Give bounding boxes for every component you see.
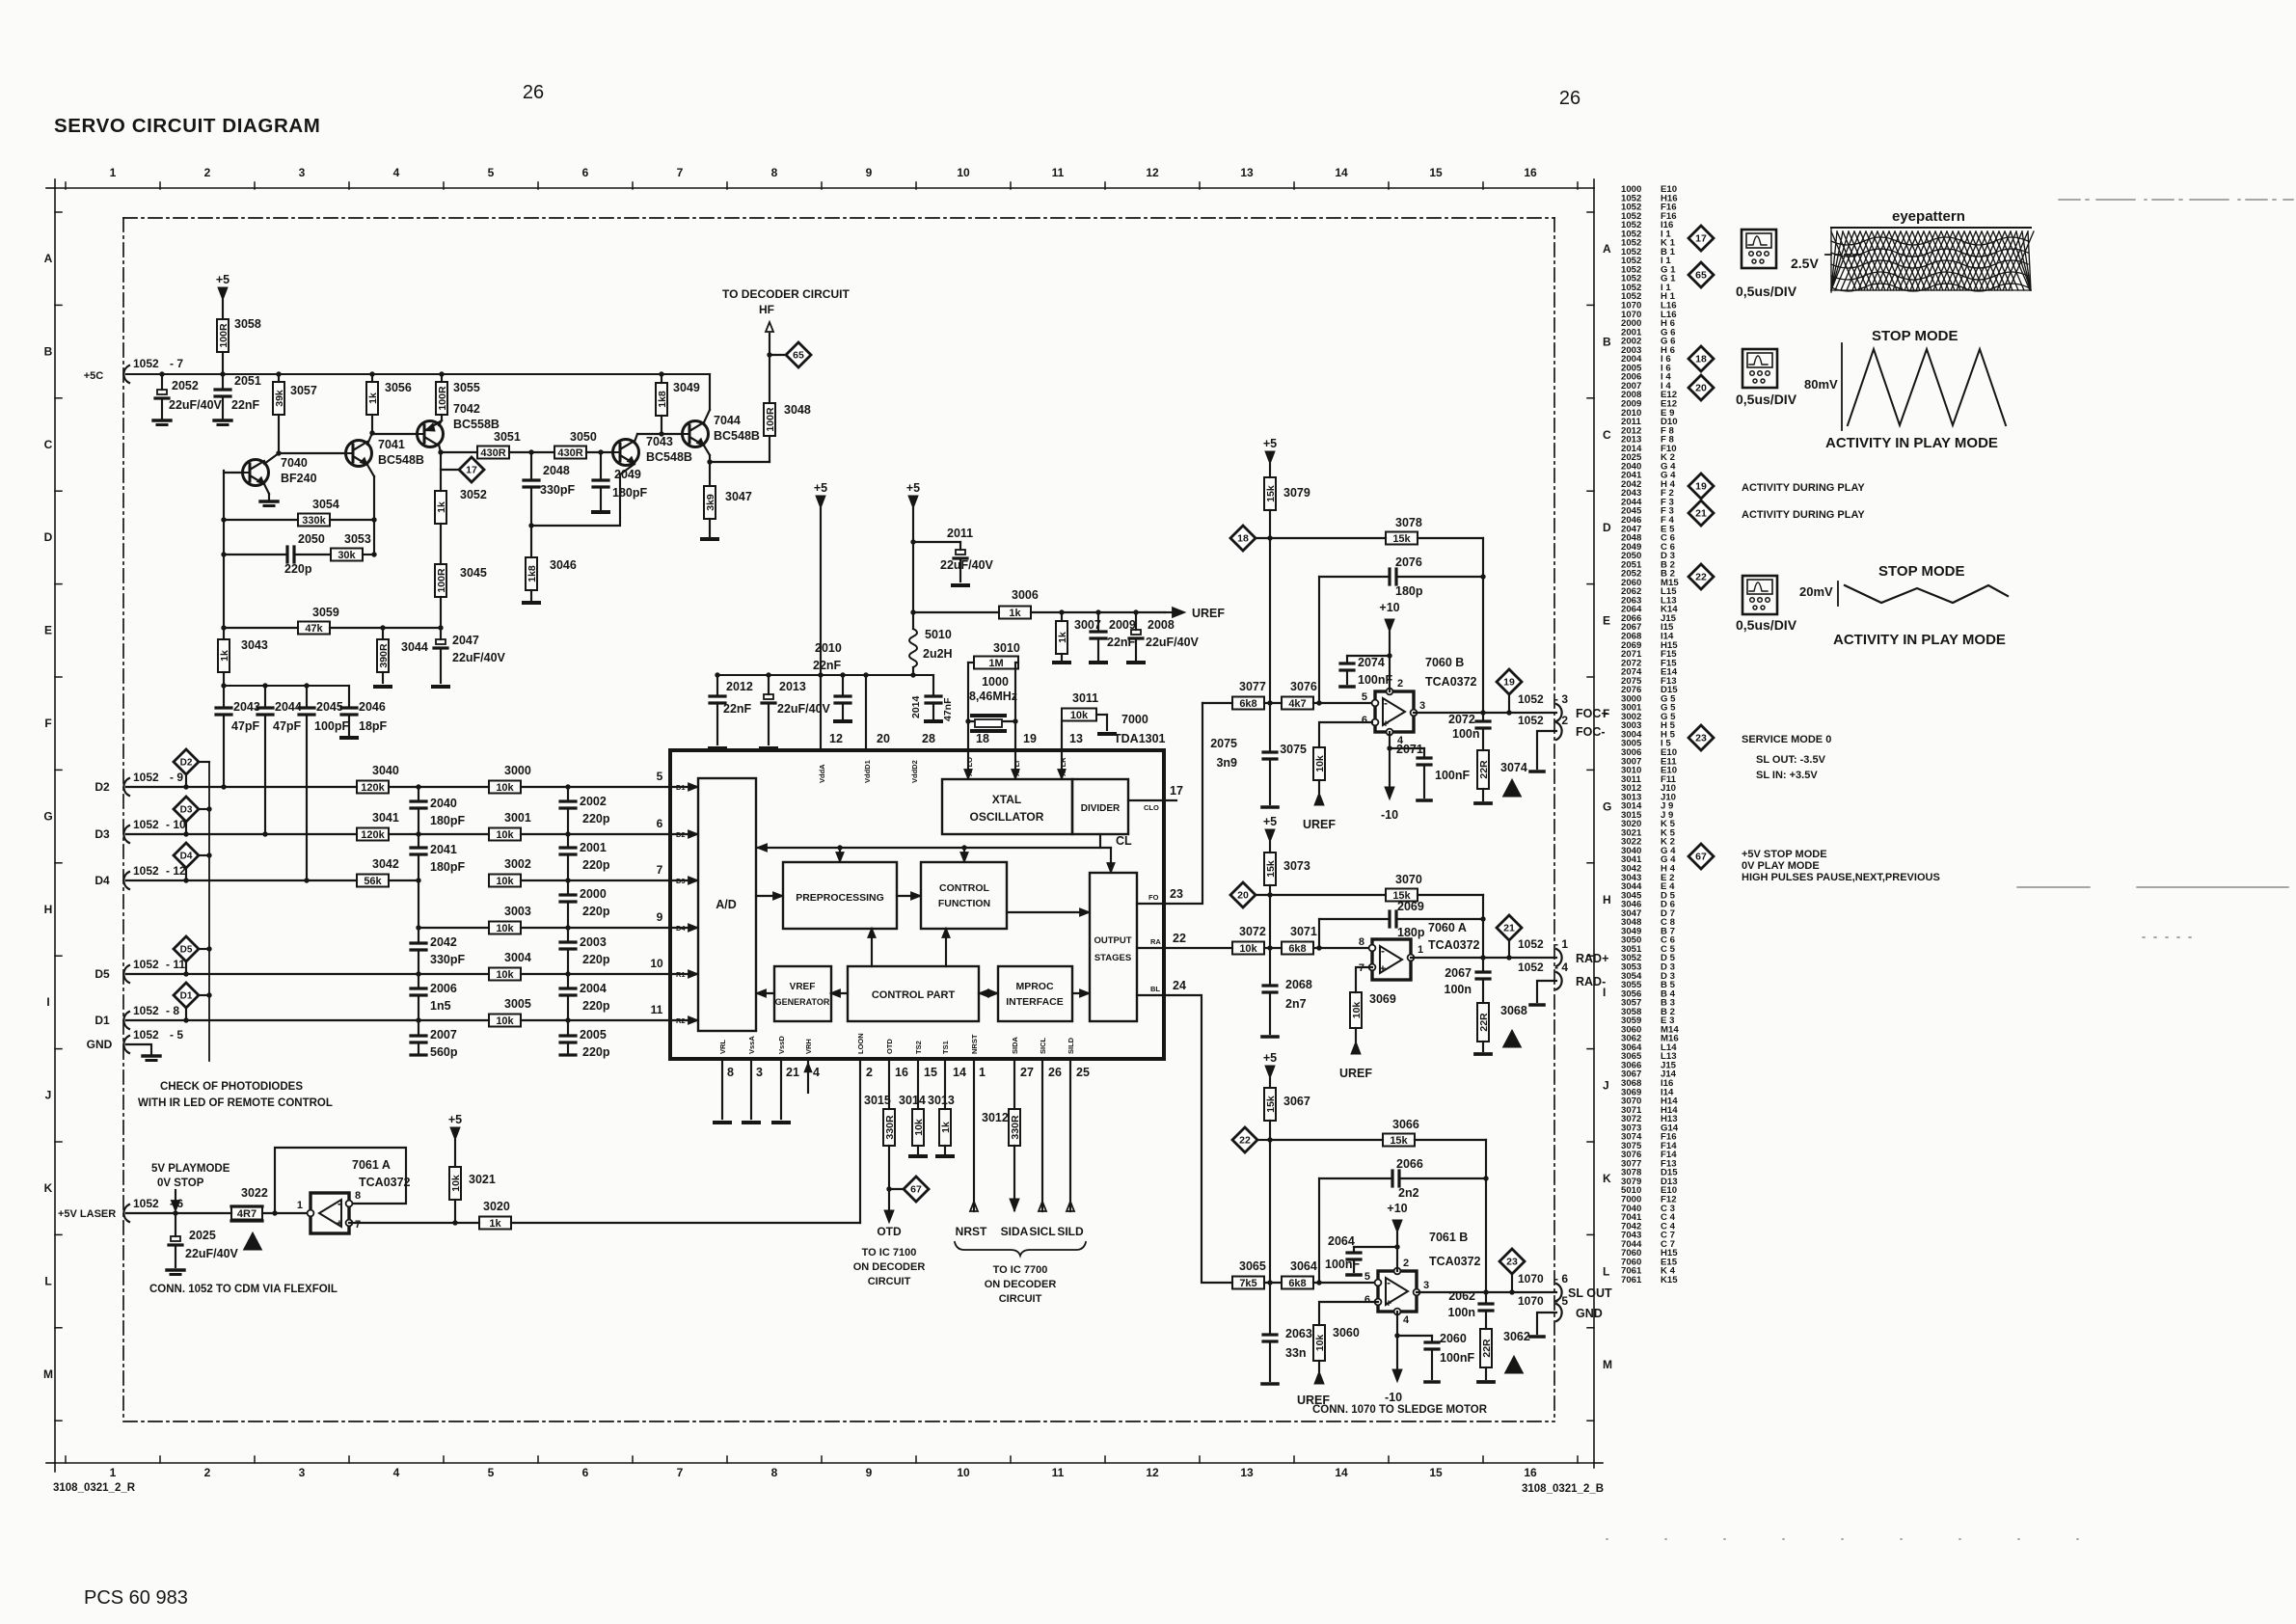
svg-text:7061 A: 7061 A	[352, 1158, 391, 1172]
svg-text:2: 2	[1403, 1258, 1409, 1269]
diamond 22	[1232, 1127, 1257, 1152]
svg-text:- 5: - 5	[1554, 1294, 1568, 1308]
CL clock net	[1099, 834, 1101, 848]
UREF arrow right	[1173, 608, 1184, 617]
resistor 3047 3k9	[709, 462, 711, 486]
svg-text:0,5us/DIV: 0,5us/DIV	[1736, 284, 1797, 299]
resistor 3051 430R	[441, 451, 477, 453]
capacitor 2043 47pF	[223, 686, 225, 708]
svg-text:22: 22	[1239, 1135, 1251, 1147]
svg-text:180p: 180p	[1397, 926, 1425, 939]
wire 7042 collector down	[439, 445, 441, 452]
ground	[953, 583, 968, 587]
svg-text:R1: R1	[676, 970, 686, 979]
resistor 3003 10k	[489, 922, 521, 934]
capacitor 2051	[222, 374, 224, 390]
wire D1 diamond stubs	[185, 1008, 187, 1020]
svg-text:3040: 3040	[372, 764, 399, 777]
svg-text:19: 19	[1503, 677, 1515, 689]
svg-text:2051: 2051	[234, 374, 261, 388]
supply -10	[1392, 1369, 1402, 1382]
svg-text:14: 14	[953, 1066, 966, 1079]
resistor 3077 6k8	[1232, 697, 1264, 710]
svg-text:INTERFACE: INTERFACE	[1006, 996, 1064, 1008]
wire pin 20 column	[865, 675, 867, 750]
svg-text:13: 13	[1240, 1466, 1254, 1479]
pin 8 ground	[721, 1059, 723, 1119]
svg-text:OUTPUT: OUTPUT	[1094, 935, 1131, 946]
svg-text:CHECK OF PHOTODIODES: CHECK OF PHOTODIODES	[160, 1081, 303, 1093]
svg-text:3050: 3050	[570, 430, 597, 444]
svg-text:-10: -10	[1385, 1391, 1402, 1404]
svg-text:22uF/40V: 22uF/40V	[452, 651, 506, 664]
svg-text:7: 7	[355, 1219, 361, 1231]
svg-text:+5: +5	[1263, 1051, 1277, 1065]
wire 7043 collector	[635, 434, 637, 442]
svg-text:D3: D3	[180, 805, 193, 816]
capacitor 2060 100nF	[1397, 1335, 1432, 1337]
svg-text:10k: 10k	[496, 1015, 514, 1027]
legend diamond 20	[1688, 375, 1714, 400]
capacitor 2013 22uF/40V	[768, 675, 770, 694]
svg-text:2062: 2062	[1448, 1289, 1475, 1303]
op-amp 7060A	[1372, 939, 1411, 980]
OTD arrow	[884, 1210, 894, 1223]
wire 7044 base	[662, 433, 682, 435]
resistor 3021 10k	[454, 1140, 456, 1167]
legend diamond 18	[1688, 346, 1714, 371]
svg-text:2011: 2011	[947, 527, 973, 540]
pin 2 LOON wire to 3020	[859, 1059, 861, 1223]
arrow playmode	[175, 1190, 176, 1201]
block DIVIDER	[1072, 779, 1128, 834]
connector SL OUT	[1556, 1284, 1562, 1301]
wire	[1264, 702, 1282, 704]
svg-text:1k8: 1k8	[657, 391, 668, 408]
svg-text:GND: GND	[87, 1038, 113, 1051]
svg-text:3055: 3055	[453, 381, 480, 394]
resistor 3060 10k	[1313, 1325, 1325, 1361]
svg-text:3012: 3012	[982, 1111, 1009, 1124]
photodiode check bus	[208, 762, 210, 1061]
resistor 3074 22R	[1477, 750, 1489, 789]
svg-text:1: 1	[1418, 944, 1423, 956]
resistor 3065 7k5	[1232, 1277, 1264, 1289]
svg-text:390R: 390R	[378, 643, 390, 668]
wire 3051-3050	[509, 451, 554, 453]
svg-text:2.5V: 2.5V	[1791, 256, 1819, 271]
arrow MPROC to OUTPUT STAGES	[1072, 992, 1089, 994]
svg-text:18pF: 18pF	[359, 719, 388, 733]
pin 3 ground	[750, 1059, 752, 1119]
svg-text:15: 15	[1429, 1466, 1443, 1479]
svg-text:!: !	[251, 1239, 255, 1251]
svg-text:7061 B: 7061 B	[1429, 1231, 1468, 1244]
wire	[389, 786, 489, 788]
arrow CONTROL PART to PREPROCESSING	[871, 930, 873, 966]
svg-text:3078: 3078	[1395, 516, 1422, 529]
ground	[153, 419, 171, 421]
warning triangle	[244, 1232, 262, 1250]
svg-text:23: 23	[1695, 733, 1707, 744]
svg-text:GND: GND	[1576, 1307, 1603, 1320]
ground	[835, 719, 851, 723]
svg-text:6k8: 6k8	[1288, 943, 1306, 955]
svg-text:VREF: VREF	[790, 982, 816, 992]
svg-text:3058: 3058	[234, 317, 261, 331]
svg-text:220p: 220p	[582, 812, 610, 826]
svg-text:B: B	[44, 344, 53, 358]
svg-text:7043: 7043	[646, 435, 673, 448]
pin 21 ground	[780, 1059, 782, 1119]
svg-text:20mV: 20mV	[1799, 584, 1833, 599]
connector +5V LASER 1052-6	[123, 1204, 129, 1222]
svg-text:A: A	[44, 252, 53, 265]
svg-text:+5V LASER: +5V LASER	[58, 1208, 116, 1220]
svg-text:16: 16	[1524, 1466, 1537, 1479]
wire D2 row	[126, 786, 357, 788]
resistor 3044 390R	[382, 628, 384, 639]
svg-text:3108_0321_2_R: 3108_0321_2_R	[53, 1482, 136, 1494]
ground	[710, 746, 725, 750]
ground	[433, 685, 448, 689]
frame ticks top/bottom	[65, 182, 67, 189]
capacitor 2010 22nF	[842, 675, 844, 696]
svg-text:3006: 3006	[1012, 588, 1039, 602]
svg-text:SIDA: SIDA	[1001, 1225, 1029, 1238]
svg-text:2075: 2075	[1210, 737, 1237, 750]
svg-text:+5: +5	[1263, 437, 1277, 450]
svg-text:10k: 10k	[496, 876, 514, 887]
svg-text:17: 17	[1170, 784, 1183, 798]
resistor 3012 330R on SIDA	[1013, 1059, 1015, 1109]
svg-text:3020: 3020	[483, 1200, 510, 1213]
connector D3 row 1052-10	[123, 826, 129, 843]
svg-text:22: 22	[1695, 572, 1707, 583]
wire caps top row	[224, 685, 349, 687]
svg-text:HIGH PULSES PAUSE,NEXT,PREVIOU: HIGH PULSES PAUSE,NEXT,PREVIOUS	[1742, 872, 1940, 883]
svg-text:1052: 1052	[133, 357, 159, 370]
warning triangle	[1503, 779, 1522, 797]
svg-text:1k: 1k	[489, 1218, 501, 1230]
ground	[910, 1154, 926, 1158]
svg-text:3069: 3069	[1369, 992, 1396, 1006]
svg-text:STAGES: STAGES	[1094, 953, 1131, 963]
svg-text:22R: 22R	[1481, 1339, 1493, 1358]
svg-text:100R: 100R	[437, 386, 448, 411]
svg-text:6k8: 6k8	[1239, 698, 1256, 710]
svg-text:+5: +5	[448, 1113, 462, 1126]
svg-text:3077: 3077	[1239, 680, 1266, 693]
svg-text:3070: 3070	[1395, 873, 1422, 886]
svg-text:4: 4	[393, 1466, 400, 1479]
svg-text:180pF: 180pF	[430, 814, 465, 827]
svg-text:1052: 1052	[133, 1028, 159, 1042]
svg-text:DIVIDER: DIVIDER	[1081, 803, 1121, 814]
svg-text:0V PLAY MODE: 0V PLAY MODE	[1742, 860, 1820, 872]
resistor 3070 15k feedback	[1270, 894, 1386, 896]
resistor 3056 1k	[371, 374, 373, 382]
svg-text:D3: D3	[95, 827, 110, 841]
svg-text:STOP MODE: STOP MODE	[1872, 328, 1958, 344]
resistor 3055 100R	[441, 374, 443, 382]
svg-text:7042: 7042	[453, 402, 480, 416]
svg-text:3053: 3053	[344, 532, 371, 546]
svg-text:3066: 3066	[1392, 1118, 1419, 1131]
diamond D1	[174, 983, 199, 1008]
svg-text:TCA0372: TCA0372	[1428, 938, 1480, 952]
svg-text:180pF: 180pF	[612, 486, 647, 500]
wire 3056 to 7041 collector	[371, 415, 373, 433]
svg-text:OTD: OTD	[877, 1225, 902, 1238]
svg-text:TCA0372: TCA0372	[359, 1176, 411, 1189]
resistor 3040 120k	[357, 781, 389, 794]
wire emitter to HF riser	[710, 461, 770, 463]
svg-text:11: 11	[1052, 166, 1065, 179]
op-amp 7060B	[1375, 691, 1414, 732]
connector D4 row 1052-12	[123, 872, 129, 889]
svg-text:65: 65	[793, 350, 804, 362]
svg-text:14: 14	[1335, 166, 1348, 179]
wire 7043 emitter L to 3046	[620, 464, 635, 474]
capacitor 2063 33n	[1269, 1283, 1271, 1335]
svg-text:-: -	[1387, 1276, 1391, 1289]
resistor 3072 10k	[1232, 942, 1264, 955]
wire 7044 emitter node	[704, 446, 710, 455]
svg-text:- 7: - 7	[170, 357, 183, 370]
svg-text:100n: 100n	[1448, 1306, 1476, 1319]
svg-text:3057: 3057	[290, 384, 317, 397]
svg-text:3108_0321_2_B: 3108_0321_2_B	[1522, 1483, 1604, 1495]
svg-text:+5C: +5C	[84, 370, 104, 382]
svg-text:3047: 3047	[725, 490, 752, 503]
svg-text:+10: +10	[1387, 1202, 1407, 1215]
svg-text:1052: 1052	[133, 1004, 159, 1017]
svg-text:18: 18	[976, 732, 989, 745]
svg-text:3021: 3021	[469, 1173, 496, 1186]
svg-text:D4: D4	[180, 852, 193, 862]
svg-text:1k: 1k	[436, 501, 447, 513]
svg-text:2012: 2012	[726, 680, 753, 693]
svg-text:1052: 1052	[1518, 714, 1544, 727]
svg-text:2000: 2000	[580, 887, 607, 901]
svg-text:D: D	[1603, 521, 1611, 534]
resistor 3043 1k	[223, 628, 225, 639]
svg-text:7: 7	[677, 1466, 684, 1479]
svg-text:3075: 3075	[1280, 743, 1307, 756]
svg-text:K: K	[1603, 1172, 1611, 1185]
svg-text:2071: 2071	[1396, 743, 1423, 756]
svg-text:27: 27	[1020, 1066, 1034, 1079]
svg-text:220p: 220p	[582, 858, 610, 872]
svg-text:R2: R2	[676, 1016, 686, 1025]
diamond D2	[174, 749, 199, 774]
resistor 3073 15k	[1269, 842, 1271, 853]
svg-text:1: 1	[297, 1200, 303, 1211]
svg-text:2001: 2001	[580, 841, 607, 854]
svg-text:10k: 10k	[1239, 943, 1257, 955]
svg-text:3064: 3064	[1290, 1259, 1317, 1273]
scan artifacts	[1607, 200, 2293, 1539]
svg-text:J: J	[45, 1089, 52, 1102]
wire 7042 emitter top	[439, 420, 442, 425]
svg-text:22: 22	[1173, 932, 1186, 945]
ground	[143, 1054, 160, 1057]
RA row from pin 22	[1164, 947, 1232, 949]
svg-text:15k: 15k	[1390, 1135, 1408, 1147]
svg-text:100nF: 100nF	[1440, 1351, 1474, 1365]
wire 434 column D4-row9	[418, 880, 419, 928]
svg-text:3072: 3072	[1239, 925, 1266, 938]
svg-text:3059: 3059	[312, 606, 339, 619]
svg-text:7060 B: 7060 B	[1425, 656, 1464, 669]
svg-text:67: 67	[910, 1184, 922, 1196]
svg-text:2u2H: 2u2H	[923, 647, 953, 661]
svg-text:SICL: SICL	[1039, 1037, 1047, 1054]
resistor 3006 1k	[999, 607, 1031, 619]
capacitor 2069 180p	[1319, 918, 1390, 920]
svg-text:7k5: 7k5	[1239, 1278, 1256, 1289]
transistor 7044 BC548B	[683, 421, 709, 447]
svg-text:3046: 3046	[550, 558, 577, 572]
svg-text:23: 23	[1170, 887, 1183, 901]
wire D3 row	[126, 833, 357, 835]
svg-text:3k9: 3k9	[705, 494, 716, 511]
svg-text:8: 8	[1359, 936, 1364, 948]
svg-text:2: 2	[204, 1466, 211, 1479]
svg-text:3045: 3045	[460, 566, 487, 580]
svg-text:2003: 2003	[580, 935, 607, 949]
svg-text:K15: K15	[1661, 1275, 1678, 1286]
svg-text:7: 7	[657, 863, 663, 877]
diamond 19	[1497, 669, 1522, 694]
svg-text:3001: 3001	[504, 811, 531, 825]
legend diamond 19	[1688, 474, 1714, 499]
svg-text:26: 26	[1048, 1066, 1062, 1079]
svg-text:!: !	[1510, 1037, 1514, 1048]
RA wire inside IC	[1137, 947, 1164, 949]
ground	[375, 685, 391, 689]
svg-text:7041: 7041	[378, 438, 405, 451]
svg-text:2013: 2013	[779, 680, 806, 693]
svg-text:SILD: SILD	[1057, 1225, 1084, 1238]
wire base row 7040-7041	[279, 452, 345, 454]
svg-text:CIRCUIT: CIRCUIT	[868, 1276, 911, 1287]
resistor 3071 6k8	[1282, 942, 1313, 955]
ground	[1099, 732, 1115, 736]
resistor 3041 120k	[357, 828, 389, 841]
svg-text:G: G	[1603, 799, 1611, 813]
wire to IC pin 11	[521, 1019, 697, 1021]
svg-text:2005: 2005	[580, 1028, 607, 1042]
focus waveform triangle	[1848, 349, 2006, 425]
wire to opamp pin5	[1313, 1282, 1378, 1284]
svg-text:10: 10	[650, 957, 663, 970]
svg-text:TO DECODER CIRCUIT: TO DECODER CIRCUIT	[722, 287, 850, 301]
svg-text:XTAL: XTAL	[992, 793, 1021, 806]
FO wire inside IC	[1137, 903, 1164, 905]
svg-text:+5: +5	[814, 481, 827, 495]
capacitor 2000 220p	[567, 880, 569, 895]
svg-text:1k: 1k	[1009, 608, 1021, 619]
wire 7040 collector	[264, 453, 279, 464]
svg-text:10k: 10k	[1351, 1002, 1363, 1019]
sledge waveform	[1845, 585, 2008, 603]
capacitor 2046 18pF	[348, 686, 350, 708]
svg-text:120k: 120k	[361, 782, 385, 794]
connector GND sledge	[1556, 1304, 1562, 1321]
svg-text:0,5us/DIV: 0,5us/DIV	[1736, 392, 1797, 407]
wire pin7 output row	[349, 1222, 479, 1224]
arrow CONTROL PART to CONTROL FUNCTION	[945, 930, 947, 966]
wire pin6 to 3060	[1319, 1302, 1378, 1325]
svg-text:3007: 3007	[1074, 618, 1101, 632]
wire +5C rail	[126, 373, 710, 375]
wire VddA column pin 12	[820, 508, 822, 750]
svg-text:2064: 2064	[1328, 1234, 1355, 1248]
svg-text:A: A	[1603, 242, 1611, 256]
svg-text:100nF: 100nF	[1435, 769, 1470, 782]
capacitor column mid	[418, 787, 419, 801]
resistor 3054 330k	[224, 519, 298, 521]
svg-text:2: 2	[1397, 678, 1403, 690]
resistor 3053 30k	[294, 554, 331, 555]
diamond D5	[174, 936, 199, 961]
svg-text:D2: D2	[676, 830, 686, 839]
svg-text:SILD: SILD	[1067, 1037, 1075, 1054]
legend diamond 23	[1688, 725, 1714, 750]
svg-text:C: C	[1603, 428, 1611, 442]
resistor 3011 10k	[1061, 720, 1063, 750]
svg-text:3060: 3060	[1333, 1326, 1360, 1340]
svg-text:2025: 2025	[189, 1229, 216, 1242]
legend diamond 21	[1688, 501, 1714, 526]
svg-text:20: 20	[1695, 383, 1707, 394]
resistor 3067 15k	[1269, 1078, 1271, 1088]
wire to IC pin 6	[521, 833, 697, 835]
resistor 3045 100R	[440, 524, 442, 564]
svg-text:VssD: VssD	[777, 1036, 786, 1054]
svg-text:ON DECODER: ON DECODER	[985, 1279, 1057, 1290]
svg-text:12: 12	[829, 732, 843, 745]
svg-text:3: 3	[756, 1066, 763, 1079]
svg-text:VddD1: VddD1	[863, 760, 872, 783]
svg-text:3048: 3048	[784, 403, 811, 417]
svg-text:2052: 2052	[172, 379, 199, 392]
svg-text:8: 8	[727, 1066, 734, 1079]
svg-text:D3: D3	[676, 877, 686, 885]
svg-text:+5: +5	[216, 273, 230, 286]
svg-text:10k: 10k	[496, 923, 514, 934]
svg-text:WITH IR LED OF REMOTE CONTROL: WITH IR LED OF REMOTE CONTROL	[138, 1097, 333, 1109]
connector D2 row 1052-9	[123, 778, 129, 796]
svg-text:5: 5	[657, 770, 663, 783]
block VREF GENERATOR	[774, 966, 831, 1021]
svg-text:3054: 3054	[312, 498, 339, 511]
svg-text:CONN. 1070 TO SLEDGE MOTOR: CONN. 1070 TO SLEDGE MOTOR	[1312, 1404, 1488, 1416]
svg-text:11: 11	[651, 1003, 663, 1016]
svg-text:+: +	[337, 1218, 342, 1230]
svg-text:1052: 1052	[133, 818, 159, 831]
svg-text:D4: D4	[95, 874, 110, 887]
capacitor 2025 22uF/40V	[175, 1213, 176, 1236]
diamond 67 stub	[889, 1188, 903, 1190]
svg-text:8: 8	[771, 1466, 778, 1479]
svg-text:2010: 2010	[815, 641, 842, 655]
svg-text:11: 11	[1052, 1466, 1065, 1479]
op-amp 7061A	[311, 1193, 349, 1233]
svg-text:15k: 15k	[1265, 485, 1277, 502]
